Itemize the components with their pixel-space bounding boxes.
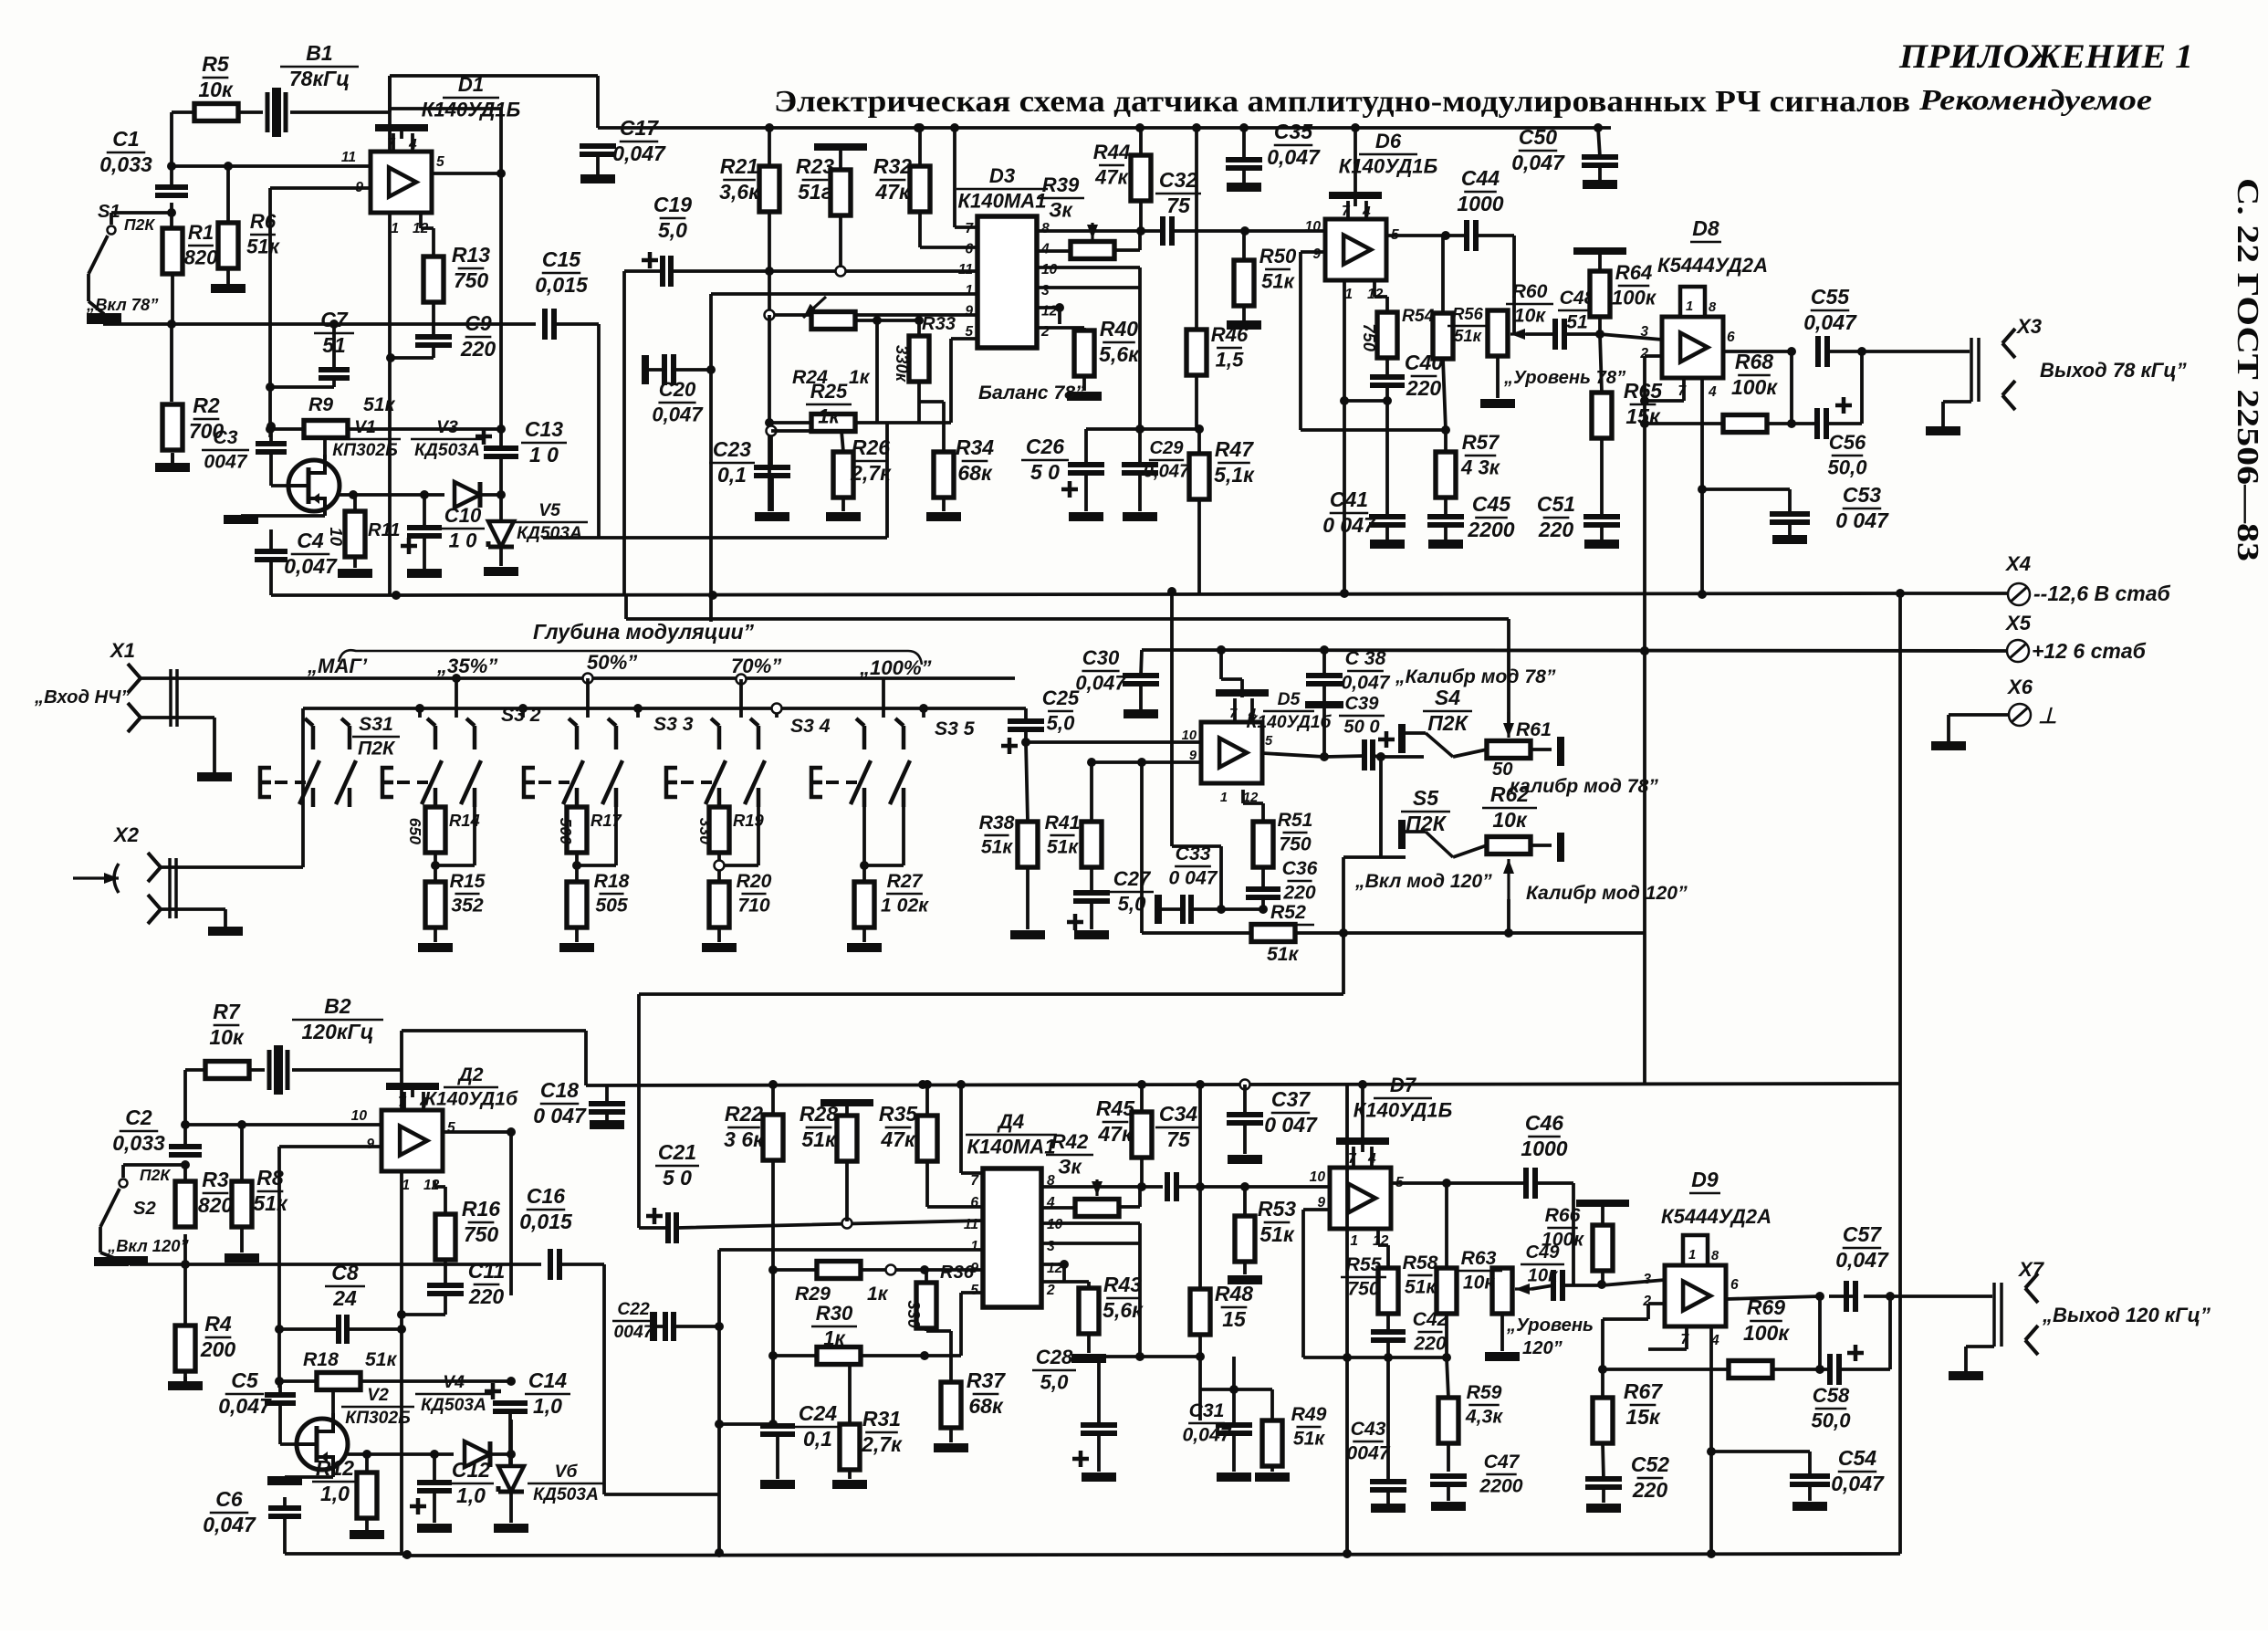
ground R60 (1480, 399, 1515, 408)
svg-text:R3: R3 (202, 1168, 229, 1191)
svg-text:8: 8 (1711, 1249, 1719, 1263)
op-amp D7 (1330, 1168, 1391, 1229)
svg-text:R56: R56 (1452, 304, 1484, 323)
wire V1 out to V3 (339, 493, 444, 497)
resistor R45 (1132, 1112, 1152, 1158)
svg-text:10: 10 (327, 528, 346, 547)
svg-text:К5444УД2А: К5444УД2А (1661, 1205, 1772, 1228)
svg-text:П2К: П2К (1406, 812, 1447, 835)
capacitor C10 (407, 528, 442, 536)
ground C45 (1428, 540, 1463, 549)
svg-text:R52: R52 (1270, 902, 1306, 923)
resistor R44 (1131, 155, 1151, 201)
svg-text:C51: C51 (1537, 492, 1575, 516)
diode V3 КД503А (455, 482, 480, 508)
svg-text:0,047: 0,047 (203, 1513, 256, 1536)
svg-text:51: 51 (1566, 312, 1588, 333)
wire C40 bottom link (1344, 399, 1387, 403)
wire left lower link bottom (719, 1422, 773, 1426)
svg-text:D6: D6 (1375, 130, 1402, 152)
svg-text:C45: C45 (1472, 492, 1511, 516)
svg-text:10к: 10к (198, 78, 234, 101)
wire pin1 line to D4 (719, 1248, 983, 1252)
svg-text:2,7к: 2,7к (861, 1432, 903, 1456)
svg-text:820: 820 (198, 1193, 234, 1217)
svg-text:Х7: Х7 (2017, 1258, 2045, 1281)
wire D8 feedback column (1643, 356, 1646, 1084)
resistor R25 (811, 414, 855, 432)
capacitor C13 (484, 448, 518, 456)
svg-text:C19: C19 (653, 193, 692, 216)
resistor R3 (175, 1181, 195, 1227)
svg-text:V2: V2 (367, 1386, 389, 1405)
svg-text:R50: R50 (1259, 245, 1297, 267)
op-amp D6 (1325, 219, 1386, 280)
wire D9 pin2 loop (1603, 1304, 1665, 1369)
svg-text:75: 75 (1166, 1127, 1191, 1151)
svg-text:220: 220 (460, 337, 496, 361)
wire C7-R9 left link (270, 387, 334, 429)
switch S5 (1398, 820, 1406, 849)
capacitor D2 pins 7-4 (386, 1083, 439, 1090)
svg-text:R7: R7 (213, 1000, 241, 1023)
svg-text:1000: 1000 (1521, 1137, 1567, 1160)
svg-text:1к: 1к (823, 1326, 846, 1349)
ground R2 (171, 453, 174, 464)
resistor R33 (909, 336, 929, 382)
capacitor C40 (1370, 377, 1405, 385)
svg-text:КД503А: КД503А (517, 524, 582, 543)
svg-text:120кГц: 120кГц (301, 1020, 373, 1043)
svg-text:R34: R34 (956, 435, 994, 459)
capacitor C19 (642, 252, 658, 268)
resistor R57 (1436, 452, 1456, 498)
resistor R22 (763, 1115, 783, 1160)
wire bottom bus of oscillator (271, 593, 396, 597)
svg-text:5,6к: 5,6к (1099, 342, 1140, 366)
svg-text:Зк: Зк (1049, 198, 1073, 221)
terminal R64 top (1573, 247, 1626, 255)
svg-text:7: 7 (1229, 707, 1238, 721)
svg-text:10к: 10к (1528, 1266, 1559, 1286)
ground C26 (1069, 512, 1103, 521)
resistor R48 (1190, 1289, 1210, 1335)
svg-text:10: 10 (1041, 262, 1058, 278)
resistor R47 (1189, 454, 1209, 499)
resistor R29 (817, 1262, 861, 1279)
svg-text:C29: C29 (1149, 438, 1184, 458)
wire D7 output (1391, 1181, 1447, 1185)
svg-text:7: 7 (965, 221, 974, 236)
resistor R69 (1729, 1361, 1772, 1378)
svg-text:50%”: 50%” (587, 651, 638, 674)
resistor R55 (1378, 1268, 1398, 1314)
svg-text:Х5: Х5 (2004, 612, 2032, 634)
svg-text:R47: R47 (1215, 437, 1254, 461)
op-amp D9 К5444УД2А (1665, 1265, 1726, 1326)
capacitor C32 (1163, 216, 1172, 246)
svg-text:R43: R43 (1103, 1273, 1142, 1296)
svg-text:калибр мод 78”: калибр мод 78” (1510, 776, 1658, 797)
svg-text:2200: 2200 (1479, 1476, 1522, 1497)
switch S1 (111, 213, 172, 225)
svg-text:5,0: 5,0 (1040, 1370, 1069, 1393)
svg-text:C2: C2 (125, 1106, 152, 1129)
resistor R36 (916, 1283, 936, 1328)
node bracket (339, 650, 922, 665)
svg-text:C15: C15 (542, 247, 581, 271)
op-amp D2 (381, 1110, 443, 1171)
svg-text:C58: C58 (1813, 1384, 1850, 1407)
resistor R13 (423, 257, 444, 302)
svg-text:10: 10 (351, 1108, 368, 1124)
resistor R54 (1377, 312, 1397, 358)
resistor R40 (1074, 330, 1094, 376)
svg-text:0047: 0047 (1346, 1443, 1390, 1464)
capacitor C28 (1081, 1425, 1117, 1433)
wire bottom bus 120k (402, 1554, 1900, 1556)
svg-text:C6: C6 (215, 1487, 243, 1511)
svg-text:750: 750 (1279, 834, 1312, 855)
svg-text:К140МА1: К140МА1 (957, 189, 1046, 212)
svg-text:C54: C54 (1838, 1446, 1876, 1470)
resistor R35 (917, 1116, 937, 1161)
svg-text:D5: D5 (1278, 690, 1301, 709)
svg-text:4 3к: 4 3к (1460, 456, 1501, 478)
capacitor C50 (1582, 157, 1618, 165)
resistor R20 (709, 882, 729, 928)
svg-text:Х2: Х2 (112, 823, 140, 846)
svg-text:Х1: Х1 (109, 639, 135, 662)
svg-text:7: 7 (1348, 1151, 1357, 1167)
resistor R38 (1018, 822, 1038, 867)
svg-text:1: 1 (965, 283, 973, 299)
svg-text:1 0: 1 0 (529, 443, 559, 466)
wire C32 to D6 pin 10 (1172, 229, 1325, 233)
svg-text:4: 4 (1367, 1151, 1376, 1167)
svg-text:3 6к: 3 6к (724, 1127, 765, 1151)
svg-text:3: 3 (1041, 283, 1050, 299)
svg-text:4: 4 (419, 1095, 428, 1111)
svg-text:0,1: 0,1 (803, 1427, 832, 1451)
capacitor C36 (1246, 889, 1280, 897)
diode V6 КД503А (508, 1411, 512, 1465)
wire D2 output pin 5 (443, 1130, 511, 1134)
svg-text:1,5: 1,5 (1216, 348, 1244, 371)
wire R55 top (1378, 1229, 1388, 1268)
svg-text:4: 4 (1248, 707, 1256, 721)
resistor R32 (910, 166, 930, 212)
resistor R4 (175, 1326, 195, 1371)
svg-text:R21: R21 (720, 154, 758, 178)
svg-text:68к: 68к (957, 461, 993, 485)
svg-text:С34: С34 (1159, 1102, 1197, 1126)
svg-text:C39: C39 (1344, 694, 1379, 714)
svg-text:50,0: 50,0 (1811, 1409, 1851, 1431)
svg-text:51к: 51к (1454, 326, 1482, 345)
svg-text:0 047: 0 047 (533, 1104, 587, 1127)
wire D6 pin9 loop (1301, 252, 1446, 430)
resistor R18a (567, 882, 587, 928)
capacitor D1 pins 7-4 (375, 124, 428, 131)
svg-text:R64: R64 (1615, 261, 1653, 284)
ground R27 (862, 928, 866, 942)
svg-text:Х3: Х3 (2015, 315, 2043, 338)
diode V4 КД503А (465, 1441, 490, 1467)
svg-text:R68: R68 (1735, 350, 1773, 373)
svg-text:47к: 47к (1097, 1122, 1134, 1146)
svg-text:R54: R54 (1402, 307, 1435, 326)
svg-text:50 0: 50 0 (1343, 718, 1380, 738)
IC D3 К140МА1 (977, 216, 1037, 348)
svg-text:24: 24 (332, 1286, 357, 1310)
wire C19 column (622, 271, 626, 595)
wire R62 wiper from below (1507, 859, 1510, 899)
svg-text:R4: R4 (204, 1312, 232, 1336)
svg-text:R2: R2 (193, 393, 220, 417)
svg-text:V5: V5 (538, 501, 560, 520)
svg-text:R18: R18 (594, 871, 630, 892)
wire D5 pin9 line (1092, 760, 1201, 764)
svg-text:C46: C46 (1525, 1111, 1563, 1135)
svg-text:1: 1 (970, 1239, 978, 1254)
ground bus-left bottom (113, 1256, 148, 1265)
capacitor C53 (1770, 514, 1810, 522)
wire pin1 column D7 (1347, 1084, 1359, 1554)
svg-text:„Вкл мод 120”: „Вкл мод 120” (1354, 871, 1492, 892)
svg-text:C24: C24 (799, 1401, 837, 1425)
svg-text:1к: 1к (849, 367, 871, 388)
svg-text:C16: C16 (527, 1184, 565, 1208)
wire X2 to bus (161, 708, 303, 867)
ground C23 (755, 512, 789, 521)
svg-text:C23: C23 (713, 437, 751, 461)
svg-text:0,015: 0,015 (519, 1210, 573, 1233)
capacitor C45 (1427, 517, 1464, 525)
wire R43 to pin 12/2 (1041, 1264, 1089, 1288)
svg-text:R51: R51 (1278, 810, 1313, 831)
resistor R31 (840, 1424, 860, 1470)
svg-text:R60: R60 (1512, 281, 1548, 302)
wire pin 7 feed (955, 128, 977, 227)
svg-text:4,3к: 4,3к (1465, 1407, 1503, 1428)
resistor R49 (1262, 1420, 1282, 1466)
svg-text:6: 6 (1730, 1277, 1739, 1293)
switch S2 (123, 1165, 185, 1178)
svg-text:1000: 1000 (1457, 192, 1503, 215)
wire D8 pin2 stub (1645, 354, 1662, 358)
svg-text:47к: 47к (874, 180, 911, 204)
svg-text:R25: R25 (810, 380, 848, 403)
ground C47 (1431, 1502, 1466, 1511)
svg-text:220: 220 (1413, 1334, 1447, 1355)
switch S31 (305, 718, 313, 749)
svg-text:100к: 100к (1731, 375, 1778, 399)
svg-text:330: 330 (904, 1300, 924, 1328)
ground R31 (832, 1480, 867, 1489)
ground R49 (1255, 1473, 1290, 1482)
wire pin 1-2 lower link bottom (1090, 1355, 1200, 1358)
wire pin 7 feed bottom (961, 1085, 983, 1173)
svg-text:R37: R37 (967, 1368, 1006, 1392)
svg-text:9: 9 (366, 1137, 374, 1152)
svg-text:C25: C25 (1042, 686, 1080, 709)
svg-text:C37: C37 (1271, 1087, 1311, 1111)
svg-text:9: 9 (1312, 246, 1321, 262)
svg-text:200: 200 (200, 1337, 236, 1361)
svg-text:Выход 78 кГц”: Выход 78 кГц” (2040, 359, 2188, 382)
IC D4 К140МА1 (983, 1169, 1041, 1307)
svg-text:7: 7 (970, 1173, 979, 1189)
svg-text:S3 5: S3 5 (935, 718, 976, 739)
wire R14 right branch (435, 807, 475, 865)
resistor R24 trimmer (811, 312, 855, 330)
svg-text:4: 4 (408, 137, 417, 152)
capacitor C4 (255, 551, 287, 560)
svg-text:750: 750 (1360, 323, 1379, 351)
svg-text:51к: 51к (1267, 944, 1300, 965)
svg-text:C9: C9 (465, 311, 492, 335)
resistor R46 (1186, 330, 1207, 375)
wire switch second bus (303, 707, 1015, 710)
node D1 box (390, 76, 501, 595)
wire V2 out to V4 (348, 1452, 454, 1456)
svg-text:3: 3 (1047, 1239, 1055, 1254)
svg-text:1,0: 1,0 (533, 1394, 562, 1418)
ground S2 (100, 1252, 114, 1258)
svg-text:R33: R33 (922, 314, 956, 334)
wire вкл мод 120 link (1343, 857, 1381, 933)
svg-text:51к: 51к (981, 837, 1014, 858)
svg-text:220: 220 (1406, 376, 1442, 400)
wire C16 to C22 box (604, 1264, 719, 1494)
svg-text:0,015: 0,015 (535, 273, 589, 297)
svg-text:D3: D3 (989, 164, 1016, 187)
node D2 box (402, 1031, 511, 1556)
svg-text:D8: D8 (1692, 216, 1719, 240)
wire R52 line (1142, 762, 1645, 933)
svg-text:750: 750 (464, 1222, 499, 1246)
svg-text:1: 1 (1686, 299, 1693, 314)
junction rail dots (765, 123, 774, 132)
capacitor C23 (754, 467, 790, 476)
svg-text:650: 650 (406, 818, 424, 844)
svg-text:R44: R44 (1093, 141, 1131, 163)
resistor R21 (759, 166, 779, 212)
svg-text:10: 10 (1305, 219, 1322, 235)
ground R8 (240, 1227, 244, 1252)
capacitor C20 (642, 355, 649, 384)
wire top-left feedback and input bus (103, 112, 536, 466)
svg-text:51к: 51к (246, 235, 281, 257)
svg-text:6: 6 (970, 1195, 978, 1211)
ground V2 source (285, 1470, 333, 1477)
svg-text:C22: C22 (617, 1300, 650, 1319)
resistor R17 (567, 807, 587, 853)
op-amp D8 К5444УД2А (1662, 317, 1723, 378)
wire +rail 78k (598, 126, 1611, 130)
svg-text:5,1к: 5,1к (1214, 463, 1255, 487)
crystal B1 (267, 92, 286, 132)
capacitor C7 (319, 370, 350, 378)
svg-text:C26: C26 (1026, 435, 1064, 458)
svg-text:5,0: 5,0 (658, 218, 687, 242)
svg-text:V4: V4 (443, 1373, 465, 1392)
wire D2 box top (402, 1031, 586, 1085)
svg-text:51к: 51к (365, 1349, 398, 1370)
svg-text:К140УД1Б: К140УД1Б (1339, 154, 1437, 177)
svg-text:3: 3 (1640, 324, 1648, 340)
svg-text:C35: C35 (1274, 120, 1313, 143)
connector X3 (1971, 338, 1979, 402)
svg-text:0 047: 0 047 (1835, 508, 1889, 532)
resistor R56 (1433, 313, 1453, 359)
svg-text:V3: V3 (436, 418, 458, 437)
junction C1 node (167, 208, 176, 217)
wire D7 pin9 loop (1303, 1210, 1447, 1357)
svg-text:C56: C56 (1829, 431, 1866, 454)
ground V6 (509, 1492, 513, 1523)
wire wiper to C48 (1526, 332, 1555, 336)
capacitor C34 (1167, 1172, 1176, 1201)
svg-text:R67: R67 (1624, 1379, 1663, 1403)
svg-text:Калибр мод 120”: Калибр мод 120” (1526, 883, 1688, 904)
svg-text:C17: C17 (620, 116, 659, 140)
capacitor C22 (650, 1312, 657, 1341)
capacitor D7 pins 7-4 (1336, 1137, 1389, 1145)
svg-text:5,0: 5,0 (1047, 711, 1075, 734)
svg-text:4: 4 (1362, 204, 1371, 220)
svg-text:78кГц: 78кГц (289, 67, 350, 90)
capacitor C42 (1371, 1332, 1406, 1340)
ground R40 (1082, 376, 1086, 391)
svg-text:S3 4: S3 4 (790, 716, 831, 737)
svg-text:R69: R69 (1747, 1295, 1785, 1319)
svg-text:120”: 120” (1522, 1338, 1563, 1358)
svg-text:10: 10 (1182, 728, 1197, 743)
svg-text:710: 710 (737, 896, 770, 917)
junction rail dots bottom (768, 1080, 778, 1089)
ground R34 (926, 512, 961, 521)
svg-text:R38: R38 (979, 812, 1015, 833)
svg-text:75: 75 (1166, 194, 1191, 217)
svg-text:„35%”: „35%” (436, 655, 498, 677)
resistor R58 (1437, 1268, 1457, 1314)
capacitor C3 (256, 444, 287, 452)
wire S35 right branch (864, 807, 904, 865)
svg-text:⊥: ⊥ (2038, 704, 2057, 728)
svg-text:352: 352 (451, 896, 484, 917)
svg-text:51к: 51к (1261, 269, 1296, 292)
resistor R34 (934, 452, 954, 498)
svg-text:47к: 47к (1094, 165, 1130, 188)
svg-text:КД503А: КД503А (414, 441, 480, 460)
svg-text:0,047: 0,047 (1511, 151, 1565, 174)
capacitor C24 (760, 1426, 795, 1434)
resistor R68 (1723, 415, 1767, 433)
svg-text:D1: D1 (458, 73, 484, 96)
wire R34 top (919, 400, 944, 404)
svg-text:C12: C12 (452, 1458, 490, 1482)
svg-text:П2К: П2К (358, 739, 396, 760)
svg-text:10к: 10к (1492, 808, 1528, 832)
resistor R50 (1234, 260, 1254, 306)
svg-text:5,6к: 5,6к (1103, 1298, 1144, 1322)
wire line B to R61 wiper (626, 596, 1509, 728)
capacitor C35 (1226, 160, 1262, 168)
capacitor C54 (1790, 1476, 1830, 1484)
svg-text:5 0: 5 0 (663, 1166, 692, 1190)
